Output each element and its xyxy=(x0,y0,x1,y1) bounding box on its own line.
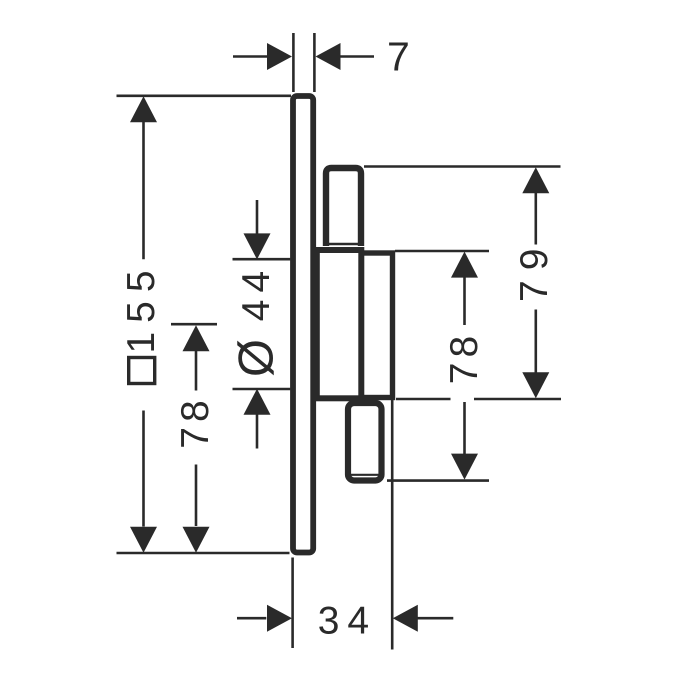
dimension 78 left line upper xyxy=(195,351,198,391)
dimension 78 right top arrow xyxy=(451,252,478,278)
dimension 7 arrow left xyxy=(267,43,292,70)
dimension D44 top leader line xyxy=(256,200,259,235)
svg-text:79: 79 xyxy=(513,239,556,302)
svg-text:44: 44 xyxy=(235,264,278,321)
dimension 155 top arrow xyxy=(130,96,157,122)
dimension 7 arrow right xyxy=(316,43,341,70)
dimension D44 top extension line xyxy=(233,258,291,261)
dimension 78 left top arrow xyxy=(183,325,210,351)
dimension 155 square symbol xyxy=(129,358,155,384)
dimension 79 line lower xyxy=(534,310,537,373)
wall plate (side view, 155x7) xyxy=(293,96,313,553)
dimension 79 bottom arrow xyxy=(522,372,549,398)
svg-text:78: 78 xyxy=(443,331,486,384)
dimension 78 left line lower xyxy=(195,465,198,527)
dimension 155 top extension line xyxy=(117,95,292,98)
svg-text:7: 7 xyxy=(387,34,410,80)
dimension 78 right bottom extension line xyxy=(387,479,489,482)
dimension 34 arrow left xyxy=(267,605,292,632)
dimension 78 right line lower xyxy=(463,402,466,455)
dimension 34 right extension line xyxy=(391,396,394,650)
bottom handle xyxy=(348,403,382,481)
bottom handle inner edge (thin) xyxy=(347,474,380,476)
dimension 79 line upper xyxy=(534,193,537,245)
top handle xyxy=(326,168,361,246)
svg-text:78: 78 xyxy=(174,395,217,448)
dimension D44 bottom leader line xyxy=(256,415,259,449)
dimension 34 left extension line xyxy=(291,558,294,649)
dimension D44 top arrow xyxy=(244,233,271,259)
dimension 155/78 bottom extension line xyxy=(117,552,290,555)
dimension 155 line upper xyxy=(142,122,145,259)
dimension 78 left top extension line xyxy=(171,323,217,326)
dimension 79 bottom extension line segment b xyxy=(474,398,561,401)
dimension 79 bottom extension line segment a xyxy=(396,398,451,401)
dimension D44 bottom extension line xyxy=(233,388,291,391)
dimension 78 right line upper xyxy=(463,278,466,326)
dimension 79 top arrow xyxy=(522,167,549,193)
svg-text:34: 34 xyxy=(318,600,377,643)
dimension 155 bottom arrow xyxy=(130,527,157,553)
dimension 34 line right xyxy=(417,617,453,620)
dimension D44 bottom arrow xyxy=(244,389,271,415)
dimension 78 right bottom arrow xyxy=(451,454,478,480)
dimension 7 extension line right xyxy=(313,33,316,92)
dimension 34 line left xyxy=(237,617,266,620)
dimension 78 left bottom arrow xyxy=(183,527,210,553)
dimension 7 line left xyxy=(233,55,268,58)
svg-text:Ø: Ø xyxy=(230,339,284,377)
dimension 7 line right xyxy=(340,55,374,58)
dimension 34 arrow right xyxy=(393,605,418,632)
sleeve (valve body) xyxy=(317,250,362,398)
svg-text:155: 155 xyxy=(120,261,163,353)
dimension 7 extension line left xyxy=(292,33,295,92)
dimension 78 right top extension line xyxy=(395,250,489,253)
dimension 79 top extension line xyxy=(364,165,561,168)
rosette (handle escutcheon) xyxy=(361,253,393,398)
dimension 155 line lower xyxy=(142,411,145,527)
top handle bottom edge (thin) xyxy=(324,243,364,246)
